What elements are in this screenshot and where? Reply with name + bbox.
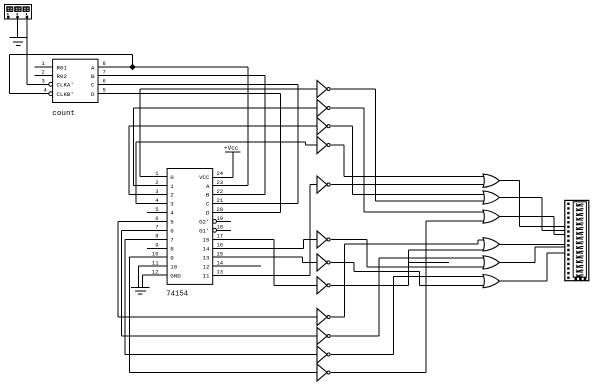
wire out0 riser to INVa xyxy=(140,89,318,177)
svg-text:12: 12 xyxy=(152,269,159,276)
svg-text:14: 14 xyxy=(217,260,224,267)
svg-text:7: 7 xyxy=(155,224,158,231)
svg-text:10: 10 xyxy=(170,264,177,271)
svg-text:R02: R02 xyxy=(57,73,68,80)
wire select C riser xyxy=(213,84,298,203)
or-gate U5F xyxy=(483,275,500,288)
svg-text:8: 8 xyxy=(170,246,174,253)
inverter U4F xyxy=(317,364,330,381)
wire out9 riser to INVl xyxy=(130,257,318,372)
svg-text:C: C xyxy=(91,82,95,89)
svg-text:6: 6 xyxy=(103,77,106,84)
wire stub node X xyxy=(409,261,449,263)
inverter U4A xyxy=(317,254,330,271)
svg-text:1: 1 xyxy=(170,183,174,190)
wire select D riser xyxy=(213,94,281,213)
svg-text:2: 2 xyxy=(170,192,174,199)
wire U1 QB (pin7) to select B riser xyxy=(98,75,265,77)
wire out12 stub xyxy=(213,265,261,267)
wire INVb out to OR3 upper xyxy=(331,108,484,212)
svg-text:9: 9 xyxy=(170,255,174,262)
svg-text:G1': G1' xyxy=(199,228,209,235)
inverter U3C xyxy=(317,118,330,135)
svg-text:17: 17 xyxy=(217,233,224,240)
inverter U3B xyxy=(317,99,330,116)
svg-text:23: 23 xyxy=(217,179,224,186)
inverter U4B xyxy=(317,277,330,294)
wire U1 QC (pin6) to select C riser xyxy=(98,83,298,85)
wire out7 riser to INVk xyxy=(125,239,318,354)
wire INVc out to OR2 upper xyxy=(331,126,484,194)
svg-text:B: B xyxy=(206,192,210,199)
or-gate U5E xyxy=(483,256,500,269)
inverter U4E xyxy=(317,346,330,363)
decoder U2 74154 xyxy=(167,169,216,285)
wire U2 pin9 stub xyxy=(147,247,167,249)
svg-text:20: 20 xyxy=(217,206,224,213)
wire out1 riser to INVb xyxy=(134,108,318,186)
connector J1 (3-pin power header) xyxy=(5,5,32,20)
svg-text:21: 21 xyxy=(217,197,224,204)
wire U1 pin2 R02 stub xyxy=(35,75,53,77)
wire U2 pin8 out7 xyxy=(125,238,167,240)
svg-text:CLKA': CLKA' xyxy=(57,82,74,89)
wire U2 pin2 out1 xyxy=(134,185,168,187)
wire INVh out to OR4 lower xyxy=(331,250,484,285)
connector J2 (16-pin display header) xyxy=(565,200,589,280)
wire U2 pin3 out2 xyxy=(129,193,167,195)
junction QA feedback node xyxy=(129,64,136,71)
svg-text:A: A xyxy=(91,64,95,71)
wire out15 east xyxy=(213,238,274,240)
wire INVa out to OR2 lower xyxy=(331,89,484,201)
wire out14 to INVf xyxy=(213,240,318,249)
svg-text:3: 3 xyxy=(42,77,45,84)
svg-text:6: 6 xyxy=(155,215,158,222)
svg-text:5: 5 xyxy=(155,206,158,213)
wire OR3 out to J2 xyxy=(500,217,565,235)
wire select B riser xyxy=(213,76,265,195)
inverter U4C xyxy=(317,308,330,325)
svg-text:12: 12 xyxy=(203,264,210,271)
wire out11 to INVe xyxy=(213,185,318,276)
svg-text:11: 11 xyxy=(203,273,210,280)
wire out2 riser to INVc xyxy=(129,126,318,194)
or-gate U5A xyxy=(483,174,500,187)
svg-text:VCC: VCC xyxy=(199,174,210,181)
svg-text:16: 16 xyxy=(217,242,224,249)
or-gate U5B xyxy=(483,191,500,204)
svg-text:5: 5 xyxy=(103,87,106,94)
wire OR5 out to J2 xyxy=(500,247,565,262)
wire clock to CLKA bubble xyxy=(27,83,49,85)
svg-text:6: 6 xyxy=(170,228,174,235)
wire INVe out to OR1 lower xyxy=(331,184,484,186)
svg-text:5: 5 xyxy=(170,219,174,226)
wire out13 to INVg xyxy=(213,257,318,262)
svg-text:R01: R01 xyxy=(57,64,68,71)
wire pin11 drop to ground xyxy=(138,266,140,287)
svg-text:13: 13 xyxy=(217,269,224,276)
wire U1 QA (pin8) to select A riser xyxy=(98,66,248,68)
inverter U3A xyxy=(317,80,330,97)
svg-text:19: 19 xyxy=(217,215,224,222)
wire out5 riser to INVi xyxy=(118,221,318,317)
svg-text:13: 13 xyxy=(203,255,210,262)
wire U2 pin4 out3 xyxy=(136,202,167,204)
inverter U3E xyxy=(317,176,330,193)
svg-text:4: 4 xyxy=(170,210,174,217)
svg-text:24: 24 xyxy=(217,170,224,177)
labels U2 right pin numbers xyxy=(217,170,224,276)
wire J1 pin2 to ground xyxy=(17,19,19,37)
svg-text:7: 7 xyxy=(170,237,174,244)
wire INVl out to OR3 lower xyxy=(331,221,484,372)
inverter U3D xyxy=(317,136,330,153)
wire U2 G2 stub xyxy=(217,220,232,222)
wire U2 pin6 out5 xyxy=(118,220,167,222)
wire GND drop to ground xyxy=(142,275,144,287)
svg-text:2: 2 xyxy=(42,69,45,76)
svg-text:0: 0 xyxy=(170,174,174,181)
wire out6 riser to INVj xyxy=(122,230,318,336)
wire J1 pin3 down (clock) xyxy=(26,19,28,84)
or-gate U5D xyxy=(483,238,500,251)
ground GND2 (under 74154) xyxy=(131,288,150,295)
wire U2 pin5 stub xyxy=(147,211,167,213)
wire U2 pin11 to ground xyxy=(139,265,168,267)
svg-text:11: 11 xyxy=(152,260,159,267)
wire U2 pin1 out0 xyxy=(140,176,167,178)
wire U1 QD (pin5) to select D riser xyxy=(98,93,281,95)
svg-text:2: 2 xyxy=(155,179,158,186)
wire out3 riser to INVd xyxy=(136,142,318,203)
svg-text:9: 9 xyxy=(155,242,158,249)
wire U1 pin1 R01 stub xyxy=(35,66,53,68)
inverter U3F xyxy=(317,231,330,248)
svg-text:22: 22 xyxy=(217,188,224,195)
svg-text:15: 15 xyxy=(217,251,224,258)
or-gate U5C xyxy=(483,210,500,223)
wire INVg out to OR6 lower xyxy=(331,262,484,285)
svg-text:count: count xyxy=(52,110,75,118)
wire INVd out to OR1 upper xyxy=(331,145,484,176)
svg-text:74154: 74154 xyxy=(166,291,189,299)
svg-text:8: 8 xyxy=(155,233,158,240)
wire INVk out to OR6 upper xyxy=(331,277,484,355)
wire out15 drop to INVh xyxy=(274,239,318,285)
ground GND1 (power connector return) xyxy=(9,19,27,45)
wire INVj out to OR5 upper xyxy=(331,258,484,336)
labels U2 left pin numbers xyxy=(152,170,159,276)
inverter U4D xyxy=(317,327,330,344)
wire U2 pin12 GND xyxy=(143,274,168,276)
counter U1 (count) xyxy=(49,59,98,102)
svg-text:D: D xyxy=(91,91,95,98)
svg-text:B: B xyxy=(91,73,95,80)
wire select A riser xyxy=(213,67,249,186)
svg-text:14: 14 xyxy=(203,246,210,253)
wire QA feedback top xyxy=(9,55,132,94)
wire INVf out to OR5 lower xyxy=(331,240,484,267)
wire OR1 out to J2 xyxy=(500,181,565,227)
power +Vcc symbol xyxy=(213,145,241,177)
svg-text:3: 3 xyxy=(170,201,174,208)
wire OR4 out to J2 xyxy=(500,243,565,245)
svg-text:G2': G2' xyxy=(199,219,209,226)
svg-text:3: 3 xyxy=(155,188,158,195)
svg-text:10: 10 xyxy=(152,251,159,258)
svg-text:+Vcc: +Vcc xyxy=(224,145,239,152)
wire INVi out to OR4 upper xyxy=(331,240,484,317)
svg-text:A: A xyxy=(206,183,210,190)
svg-text:7: 7 xyxy=(103,69,106,76)
svg-text:GND: GND xyxy=(170,273,181,280)
svg-text:CLKB': CLKB' xyxy=(57,91,74,98)
svg-text:18: 18 xyxy=(217,224,224,231)
wire OR6 out to J2 xyxy=(500,253,565,281)
wire U2 pin10 out9 xyxy=(130,256,168,258)
wire OR2 out to J2 xyxy=(500,198,565,231)
svg-text:8: 8 xyxy=(103,60,106,67)
svg-text:C: C xyxy=(206,201,210,208)
wire U2 G1 stub xyxy=(217,229,232,231)
svg-text:15: 15 xyxy=(203,237,210,244)
wire U2 pin7 out6 xyxy=(122,229,168,231)
svg-text:D: D xyxy=(206,210,210,217)
